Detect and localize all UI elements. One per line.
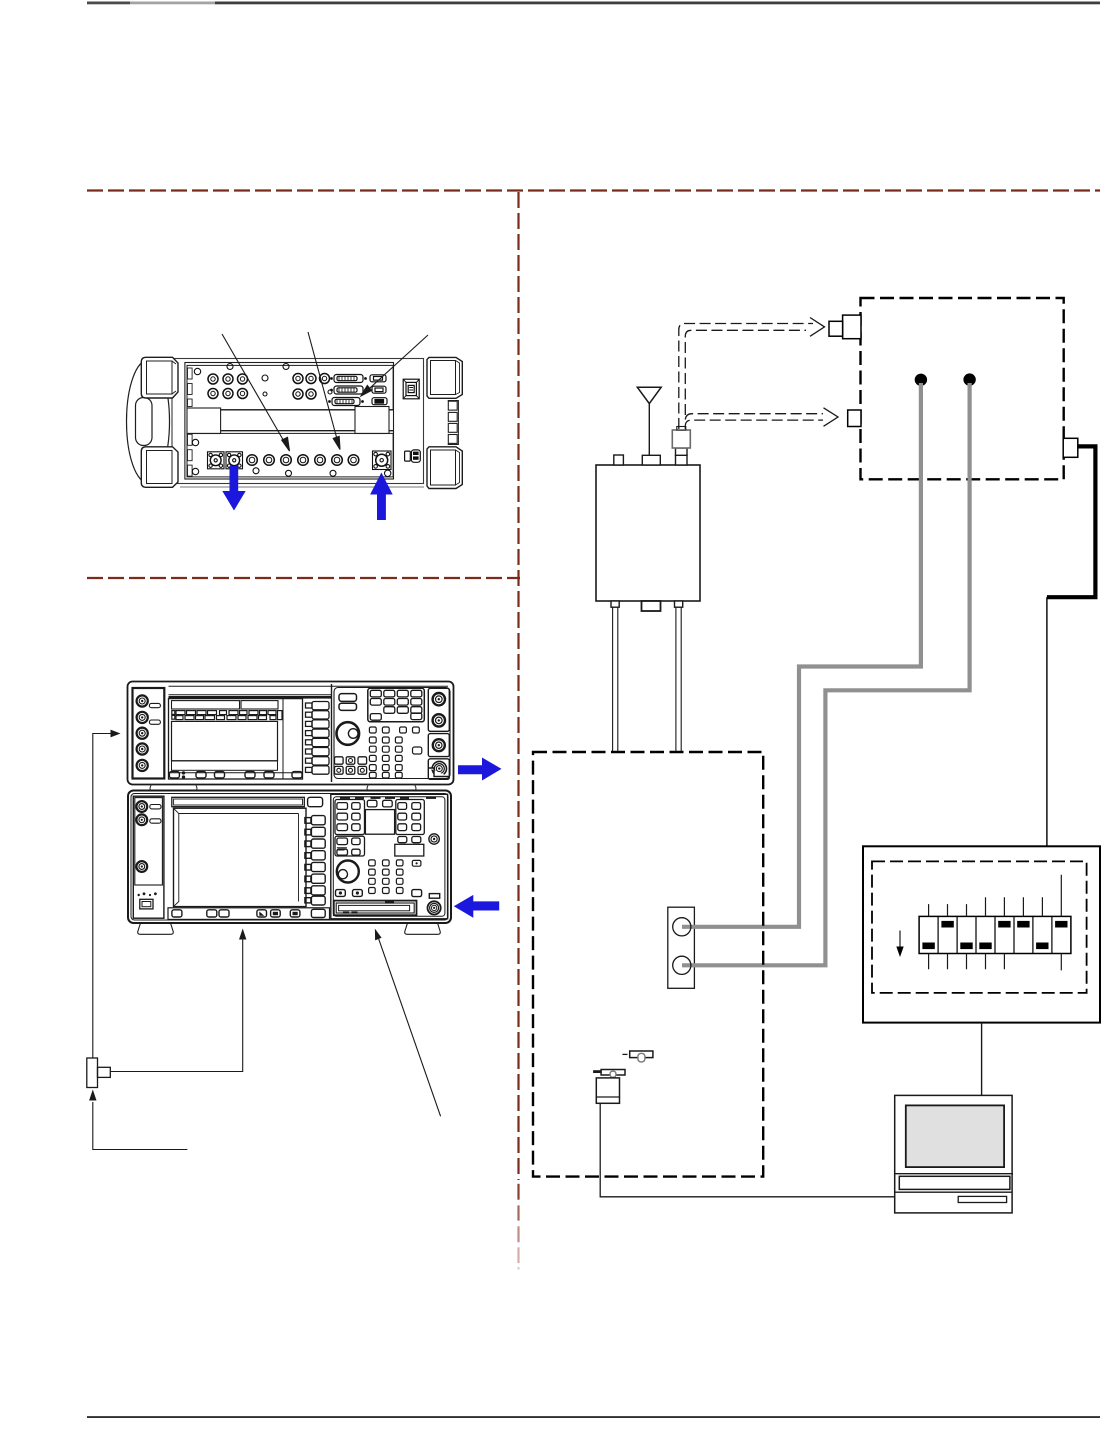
rear: bottom row flange BNC 2 bbox=[226, 452, 243, 469]
phone antenna triangle bbox=[637, 387, 661, 403]
rear: bottom flange BNC right bbox=[373, 451, 392, 470]
rear: D-sub side dots bbox=[328, 377, 367, 403]
ana: left BNC 2 bbox=[136, 814, 147, 825]
rear: right column of squares bbox=[448, 401, 459, 445]
wire from battery eliminator down and right to laptop bbox=[600, 1103, 895, 1197]
DUT left connector 1 (large) bbox=[843, 315, 861, 339]
ana: BNC label plates bbox=[150, 805, 161, 809]
ana: feet bbox=[138, 923, 441, 934]
DIP switch body bbox=[919, 916, 1071, 953]
rear: bottom hex BNC row bbox=[247, 455, 359, 466]
rear: small screws upper bbox=[194, 364, 332, 397]
gen: function key panel bbox=[368, 688, 425, 722]
rear: corner block top-left bbox=[141, 357, 178, 398]
ana: left BNC 3 bbox=[136, 861, 147, 872]
headset adapter 1 barrel bbox=[638, 1053, 645, 1062]
rear: small connectors right of D-subs bbox=[370, 375, 386, 382]
rear: corner block top-right bbox=[427, 357, 462, 398]
laptop computer bbox=[895, 1095, 1012, 1213]
open arrowhead upper dashed cable bbox=[810, 318, 825, 337]
gen: bottom key row bbox=[169, 771, 302, 779]
rear: middle left rect bbox=[187, 408, 221, 434]
red dashed horizontal rule 1 bbox=[87, 189, 1100, 191]
ana: rotary knob bbox=[337, 861, 359, 883]
callout line to generator left panel bbox=[87, 730, 441, 1150]
callout diagonal line to floppy drive bbox=[378, 936, 441, 1117]
headset adapter 2 thick dash bbox=[593, 1070, 601, 1073]
laptop trackpad bbox=[958, 1196, 1006, 1202]
headset adapter 2 barrel bbox=[610, 1071, 616, 1077]
phone RF connector stack bbox=[676, 455, 688, 465]
DUT dashed box (shield box) bbox=[861, 298, 1064, 479]
gen: display menu bar boxes bbox=[172, 701, 240, 709]
ana: small plate above BNC bbox=[429, 894, 439, 899]
rear: chassis body bbox=[172, 359, 424, 484]
ana: two dot keys bbox=[336, 890, 346, 897]
top rule dark segment bbox=[87, 2, 130, 5]
rear: left bumper ellipse bbox=[127, 360, 170, 483]
ana: black group tabs bbox=[340, 797, 436, 799]
gen: BNC label plates bbox=[149, 703, 160, 707]
bottom rule bbox=[87, 1416, 1100, 1418]
thin line continuing down to switch box bbox=[1046, 597, 1048, 846]
DIP switch actuators (black squares) bbox=[922, 943, 934, 950]
top rule gray segment bbox=[130, 2, 215, 5]
gen: output connector column bbox=[428, 688, 449, 731]
phone top button bump bbox=[614, 455, 624, 465]
DUT left connector 2 (small) bbox=[848, 410, 861, 427]
gen: contrast keys bbox=[339, 694, 357, 702]
ana: key group top-middle bbox=[367, 800, 377, 807]
gen: left BNC 1 bbox=[137, 695, 148, 771]
open arrowhead lower dashed cable bbox=[824, 408, 839, 427]
ana: enter key with dot bbox=[412, 860, 421, 866]
ana: key group top-left bbox=[335, 800, 365, 835]
ana: left BNC 1 bbox=[136, 801, 147, 812]
gen: keypad section bbox=[332, 684, 451, 782]
phone antenna base bump bbox=[642, 455, 660, 465]
phone bottom left bump bbox=[611, 601, 619, 607]
gray audio cable A bbox=[682, 383, 921, 927]
callout line to analyzer bottom bbox=[110, 939, 242, 1072]
antenna coupler dot A bbox=[915, 374, 926, 385]
laptop keyboard bbox=[899, 1176, 1010, 1189]
phone audio wire left (double line) bbox=[612, 607, 614, 753]
ana: key group top-right bbox=[396, 800, 425, 835]
lower-left dashed box (audio/interface area) bbox=[533, 752, 763, 1177]
rear: corner block bottom-left bbox=[141, 447, 178, 488]
gray audio cable B bbox=[682, 383, 970, 965]
gen: chassis bbox=[128, 682, 454, 785]
phone audio wire right (double line) bbox=[675, 607, 677, 753]
ana: softkey column bbox=[305, 816, 325, 905]
ana: key group mid-right bbox=[398, 837, 407, 843]
dashed RF cable tube: lower branch top line bbox=[685, 414, 823, 420]
rear: AC power inlet bbox=[405, 450, 421, 462]
battery eliminator box bbox=[596, 1078, 619, 1103]
ana: RF input BNC bbox=[428, 901, 441, 914]
gen: display heavy top edge bbox=[169, 696, 332, 699]
ana: display area bbox=[174, 808, 307, 906]
callout arrow pointing at adapter from below bbox=[93, 1102, 188, 1150]
gen: feet hooks bbox=[150, 785, 416, 792]
rear: pointer line 3 bbox=[365, 335, 428, 393]
gen: blue output arrow (right) bbox=[458, 758, 502, 781]
phone bottom right bump bbox=[675, 601, 683, 607]
wire from switch unit to laptop bbox=[981, 1023, 983, 1096]
gen: display graticule area bbox=[172, 721, 278, 760]
dashed RF cable tube: outer line up then right bbox=[679, 324, 813, 430]
red dashed horizontal rule 2 bbox=[87, 577, 520, 579]
rear: corner block bottom-right bbox=[427, 447, 462, 489]
rear: BNC connectors upper cluster bbox=[194, 364, 332, 400]
antenna coupler dot B bbox=[964, 374, 975, 385]
headset adapter 2 body bbox=[601, 1070, 625, 1076]
red dashed vertical divider fading tail bbox=[517, 1184, 519, 1200]
ana: floppy drive bbox=[334, 901, 417, 916]
rear: upper connector subpanel bbox=[187, 365, 393, 409]
mobile phone body bbox=[596, 465, 700, 601]
ana: bottom key row bbox=[168, 908, 330, 920]
thick black cable from DUT right connector bbox=[1047, 446, 1096, 597]
switch unit solid box bbox=[863, 846, 1100, 1022]
ana: key right of title bar bbox=[308, 797, 323, 806]
gen: numeric keypad bbox=[369, 727, 421, 778]
rear: left handle bar bbox=[136, 398, 153, 446]
ana: left connector panel bbox=[133, 796, 164, 918]
rear: pointer line 2 bbox=[308, 332, 339, 445]
gen: left connector panel bbox=[133, 688, 165, 779]
ana: display title bar bbox=[172, 797, 304, 806]
rear: blue arrow down bbox=[222, 466, 392, 520]
laptop screen bbox=[906, 1105, 1004, 1167]
ana: numeric keypad bbox=[369, 860, 403, 894]
headset adapter 1 dash bbox=[622, 1053, 627, 1055]
switch unit inner dashed box bbox=[872, 861, 1087, 993]
rear: fan grille concentric squares bbox=[403, 379, 419, 399]
gen: display outer frame bbox=[169, 699, 303, 779]
reference adapter connector symbol bbox=[87, 1058, 98, 1088]
DIP switch cell dividers bbox=[938, 916, 1052, 953]
ana: blue input arrow (left) bbox=[454, 895, 499, 918]
rear: pointer line 1 bbox=[222, 332, 428, 451]
rear: lower connector subpanel bbox=[187, 433, 393, 477]
red dashed vertical divider bbox=[517, 192, 519, 1180]
dashed RF cable tube: lower branch bottom line bbox=[685, 420, 823, 429]
top rule long dark segment bbox=[215, 2, 1100, 5]
gen: arrow/hold key cluster bbox=[335, 757, 367, 774]
ana: keypad section bbox=[331, 794, 448, 919]
rear: central recessed panel bbox=[185, 363, 394, 480]
headset adapter 1 body bbox=[630, 1051, 653, 1058]
rear: blue arrow up bbox=[370, 473, 393, 521]
ana: chassis bbox=[128, 791, 451, 924]
small down arrow inside switch unit bbox=[896, 931, 903, 958]
jack circle A bbox=[673, 918, 691, 936]
laptop base line bbox=[895, 1191, 1012, 1193]
audio breakout block with two jacks bbox=[668, 907, 695, 988]
gen: top inner strip bbox=[169, 686, 449, 695]
laptop hinge line bbox=[895, 1173, 1013, 1175]
phone antenna mast bbox=[648, 404, 650, 456]
DIP switch bottom leads bbox=[929, 954, 1062, 971]
ana: keyed connector bbox=[429, 834, 439, 844]
rear: middle right rect bbox=[355, 407, 389, 434]
rear: bottom row flange BNC 1 bbox=[192, 439, 391, 476]
ana: standby dots + power key bbox=[138, 892, 157, 896]
rear: middle band lines bbox=[187, 409, 393, 411]
ana: key group mid-left bbox=[335, 836, 365, 856]
gen: annunciator rows bbox=[172, 711, 282, 720]
ana: key right bbox=[412, 890, 422, 897]
rear: D-sub connectors bbox=[328, 375, 387, 406]
DIP switch top leads bbox=[929, 875, 1062, 917]
rear: vent slots bbox=[188, 368, 193, 379]
jack circle B bbox=[673, 956, 691, 974]
dashed RF cable tube: inner line of upper branch bbox=[685, 330, 806, 415]
phone bottom middle bump bbox=[642, 601, 661, 611]
DUT right connector bbox=[1063, 438, 1078, 457]
gen: rotary knob bbox=[337, 722, 360, 745]
gen: softkey column bbox=[303, 699, 330, 779]
rear: bottom small screws bbox=[192, 439, 391, 476]
